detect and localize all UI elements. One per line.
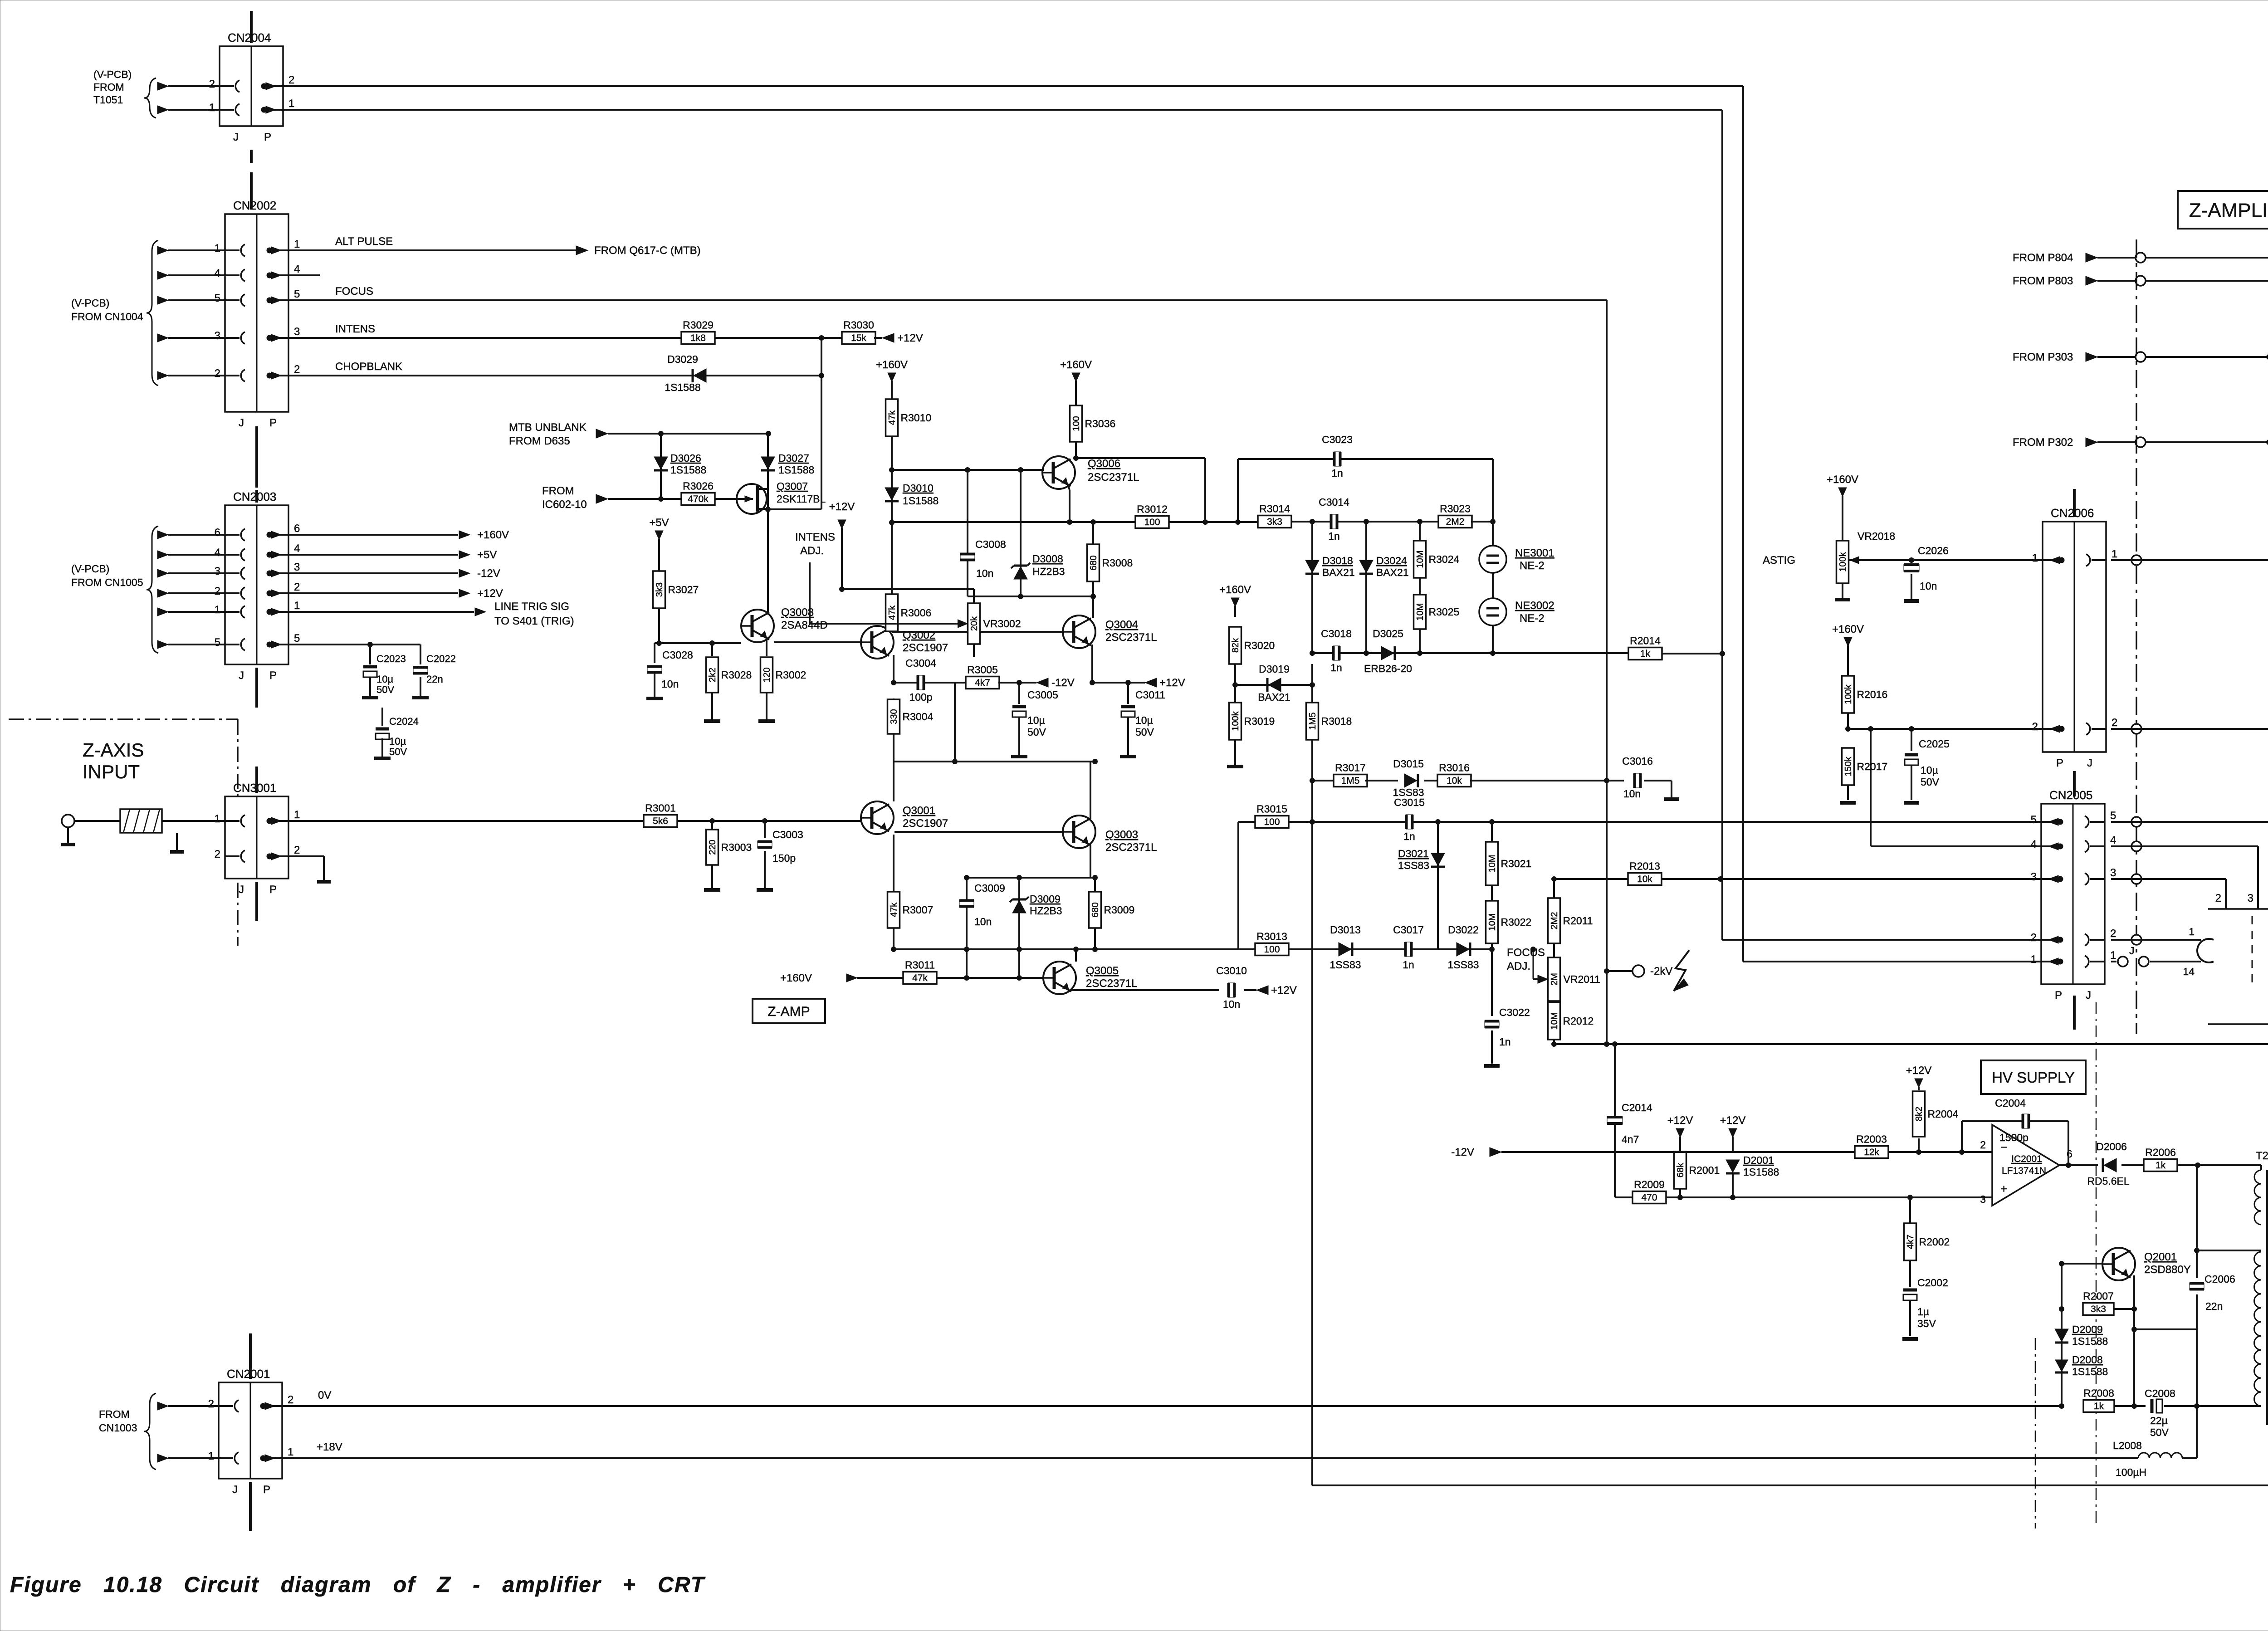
- svg-text:2SC1907: 2SC1907: [903, 817, 948, 830]
- svg-text:1: 1: [209, 102, 215, 114]
- svg-text:330: 330: [889, 709, 899, 724]
- svg-text:MTB UNBLANK: MTB UNBLANK: [509, 421, 587, 434]
- svg-text:C2014: C2014: [1622, 1102, 1652, 1113]
- svg-text:100µH: 100µH: [2116, 1466, 2146, 1478]
- svg-text:+12V: +12V: [1667, 1114, 1693, 1127]
- svg-text:R3014: R3014: [1259, 503, 1290, 515]
- svg-text:(V-PCB): (V-PCB): [71, 563, 109, 575]
- svg-text:10µ: 10µ: [389, 736, 406, 747]
- svg-text:R2002: R2002: [1919, 1236, 1950, 1248]
- svg-text:INTENS: INTENS: [335, 323, 375, 335]
- svg-text:2M2: 2M2: [1549, 912, 1559, 930]
- svg-text:1500p: 1500p: [1999, 1132, 2028, 1143]
- svg-text:D3009: D3009: [1030, 893, 1061, 905]
- svg-text:Z-AXIS: Z-AXIS: [83, 739, 144, 761]
- svg-text:1: 1: [288, 1446, 293, 1458]
- svg-text:3k3: 3k3: [655, 582, 665, 597]
- svg-text:R2008: R2008: [2083, 1387, 2114, 1399]
- svg-text:D3008: D3008: [1032, 553, 1063, 565]
- svg-text:+160V: +160V: [1219, 584, 1251, 596]
- svg-text:R3016: R3016: [1439, 762, 1470, 774]
- svg-text:1S1588: 1S1588: [1743, 1166, 1779, 1178]
- svg-text:5: 5: [215, 292, 220, 304]
- svg-text:4: 4: [294, 542, 300, 555]
- svg-text:P: P: [269, 884, 277, 896]
- svg-text:R2007: R2007: [2083, 1290, 2114, 1302]
- svg-text:D2009: D2009: [2072, 1323, 2103, 1335]
- svg-text:2: 2: [294, 581, 300, 593]
- svg-text:22n: 22n: [2205, 1300, 2223, 1312]
- svg-text:CN2004: CN2004: [228, 31, 271, 44]
- svg-text:D3013: D3013: [1330, 924, 1361, 936]
- svg-text:10k: 10k: [1447, 776, 1462, 786]
- svg-text:LF13741N: LF13741N: [2002, 1166, 2046, 1176]
- svg-text:R3029: R3029: [683, 319, 714, 331]
- svg-text:1M5: 1M5: [1341, 776, 1360, 786]
- svg-text:ASTIG: ASTIG: [1763, 554, 1795, 566]
- svg-text:1S1588: 1S1588: [2072, 1366, 2108, 1377]
- svg-text:4: 4: [2110, 834, 2116, 846]
- svg-text:-12V: -12V: [1451, 1146, 1474, 1158]
- svg-text:3: 3: [215, 565, 220, 577]
- svg-text:R3009: R3009: [1104, 904, 1135, 916]
- svg-text:R3024: R3024: [1429, 553, 1460, 565]
- svg-text:2SD880Y: 2SD880Y: [2144, 1264, 2191, 1276]
- svg-text:5: 5: [2031, 814, 2037, 826]
- svg-text:Q3006: Q3006: [1088, 458, 1120, 470]
- svg-text:R2017: R2017: [1857, 761, 1888, 772]
- svg-text:+12V: +12V: [829, 501, 855, 513]
- svg-text:2: 2: [2112, 717, 2117, 729]
- svg-text:FROM Q617-C (MTB): FROM Q617-C (MTB): [594, 244, 701, 257]
- svg-text:R2009: R2009: [1634, 1179, 1665, 1191]
- svg-text:50V: 50V: [1027, 726, 1046, 738]
- svg-text:1S1588: 1S1588: [2072, 1335, 2108, 1347]
- svg-text:1n: 1n: [1330, 662, 1342, 674]
- svg-text:2: 2: [288, 1394, 293, 1406]
- svg-text:R3002: R3002: [776, 669, 807, 681]
- svg-text:50V: 50V: [389, 746, 407, 757]
- svg-text:5: 5: [2110, 810, 2116, 822]
- svg-text:50V: 50V: [376, 684, 394, 695]
- svg-text:R2006: R2006: [2145, 1147, 2176, 1158]
- svg-text:C2023: C2023: [376, 653, 406, 664]
- svg-text:+5V: +5V: [649, 517, 669, 529]
- svg-text:Z-AMPLIFIER + CRT: Z-AMPLIFIER + CRT: [2189, 199, 2268, 221]
- svg-text:P: P: [263, 1484, 270, 1496]
- svg-text:C3028: C3028: [662, 649, 693, 661]
- svg-text:3: 3: [294, 561, 300, 573]
- svg-text:1n: 1n: [1403, 830, 1415, 842]
- svg-text:R3023: R3023: [1440, 503, 1471, 515]
- svg-text:2SC2371L: 2SC2371L: [1086, 977, 1137, 990]
- svg-text:1: 1: [2110, 949, 2116, 962]
- svg-text:47k: 47k: [887, 410, 897, 425]
- svg-text:+160V: +160V: [1060, 359, 1092, 371]
- svg-text:3: 3: [1980, 1193, 1986, 1205]
- svg-text:R3008: R3008: [1102, 557, 1133, 569]
- svg-text:R3004: R3004: [903, 711, 934, 723]
- svg-text:BAX21: BAX21: [1376, 566, 1409, 578]
- svg-text:2: 2: [1980, 1139, 1986, 1151]
- svg-text:2SC2371L: 2SC2371L: [1105, 841, 1157, 854]
- svg-text:100k: 100k: [1843, 684, 1853, 704]
- svg-text:R3025: R3025: [1429, 606, 1460, 618]
- svg-text:10µ: 10µ: [1027, 714, 1045, 726]
- svg-text:+12V: +12V: [1159, 677, 1185, 689]
- svg-text:CN1003: CN1003: [99, 1422, 137, 1434]
- svg-text:Z-AMP: Z-AMP: [767, 1004, 810, 1019]
- svg-text:D3018: D3018: [1322, 555, 1353, 566]
- svg-text:INPUT: INPUT: [83, 761, 140, 782]
- svg-text:3: 3: [2031, 871, 2037, 883]
- svg-text:1: 1: [2112, 548, 2117, 560]
- svg-text:2M2: 2M2: [1446, 517, 1465, 527]
- svg-text:Q3005: Q3005: [1086, 965, 1119, 977]
- svg-text:HV SUPPLY: HV SUPPLY: [1992, 1069, 2075, 1086]
- svg-text:1: 1: [294, 600, 300, 612]
- svg-text:47k: 47k: [912, 973, 928, 983]
- svg-text:C3010: C3010: [1216, 965, 1247, 977]
- svg-text:1: 1: [215, 604, 220, 616]
- svg-text:1: 1: [2032, 552, 2038, 564]
- svg-text:C3014: C3014: [1319, 496, 1349, 508]
- svg-text:R2016: R2016: [1857, 689, 1888, 700]
- svg-text:P: P: [2056, 757, 2063, 769]
- svg-text:P: P: [264, 131, 271, 143]
- svg-text:+160V: +160V: [780, 972, 812, 984]
- svg-text:10µ: 10µ: [1135, 714, 1153, 726]
- svg-text:R3026: R3026: [683, 480, 714, 492]
- svg-text:120: 120: [762, 667, 772, 682]
- svg-text:+18V: +18V: [317, 1441, 342, 1453]
- svg-text:68k: 68k: [1676, 1162, 1686, 1177]
- svg-text:INTENS: INTENS: [795, 531, 835, 543]
- svg-text:Q3003: Q3003: [1105, 829, 1138, 841]
- svg-text:C2002: C2002: [1917, 1277, 1948, 1289]
- svg-text:VR2011: VR2011: [1564, 973, 1600, 985]
- svg-text:P: P: [269, 417, 277, 429]
- svg-text:10n: 10n: [976, 567, 993, 579]
- svg-text:FROM: FROM: [99, 1408, 130, 1420]
- svg-text:2SC1907: 2SC1907: [903, 642, 948, 654]
- svg-text:1n: 1n: [1499, 1036, 1511, 1048]
- svg-text:100k: 100k: [1231, 711, 1241, 731]
- svg-text:1k: 1k: [1640, 649, 1651, 659]
- svg-text:D2008: D2008: [2072, 1354, 2103, 1366]
- svg-text:CHOPBLANK: CHOPBLANK: [335, 361, 402, 373]
- svg-text:C3004: C3004: [905, 657, 936, 669]
- svg-text:R2003: R2003: [1856, 1133, 1887, 1145]
- svg-text:(V-PCB): (V-PCB): [71, 297, 109, 309]
- svg-text:HZ2B3: HZ2B3: [1032, 566, 1065, 577]
- svg-text:FROM CN1004: FROM CN1004: [71, 311, 143, 322]
- svg-text:C2008: C2008: [2145, 1387, 2175, 1399]
- svg-text:50V: 50V: [1135, 726, 1154, 738]
- svg-text:10n: 10n: [974, 916, 992, 928]
- svg-text:D2006: D2006: [2096, 1141, 2127, 1152]
- svg-text:-12V: -12V: [477, 567, 500, 580]
- svg-text:+160V: +160V: [1827, 474, 1858, 486]
- svg-text:CN2003: CN2003: [233, 490, 276, 503]
- svg-text:4: 4: [294, 263, 300, 275]
- svg-text:R3019: R3019: [1244, 715, 1275, 727]
- svg-text:100: 100: [1264, 944, 1280, 955]
- svg-text:100p: 100p: [909, 691, 932, 703]
- svg-text:R3028: R3028: [721, 669, 752, 681]
- svg-text:D3025: D3025: [1373, 628, 1403, 640]
- svg-text:100k: 100k: [1838, 552, 1848, 571]
- svg-text:10µ: 10µ: [376, 674, 393, 685]
- svg-text:Q2001: Q2001: [2144, 1251, 2177, 1263]
- svg-text:1n: 1n: [1403, 959, 1414, 971]
- svg-text:Q3004: Q3004: [1105, 619, 1138, 631]
- svg-text:T1051: T1051: [93, 94, 123, 106]
- svg-text:RD5.6EL: RD5.6EL: [2087, 1175, 2130, 1187]
- svg-text:BAX21: BAX21: [1322, 566, 1355, 578]
- svg-text:D3026: D3026: [670, 452, 701, 464]
- svg-text:D3019: D3019: [1259, 663, 1290, 675]
- svg-text:10M: 10M: [1487, 913, 1497, 931]
- svg-text:R3005: R3005: [967, 664, 998, 676]
- svg-text:J: J: [2086, 989, 2091, 1001]
- svg-text:P: P: [2055, 989, 2062, 1001]
- svg-text:CN2006: CN2006: [2051, 506, 2094, 520]
- svg-text:5: 5: [294, 288, 300, 300]
- svg-text:4: 4: [2031, 838, 2037, 850]
- svg-text:C2006: C2006: [2204, 1273, 2235, 1285]
- svg-text:FROM P803: FROM P803: [2013, 275, 2073, 287]
- svg-text:+12V: +12V: [1906, 1065, 1932, 1077]
- svg-text:CN2001: CN2001: [227, 1367, 270, 1381]
- svg-text:C2022: C2022: [426, 653, 456, 664]
- svg-text:NE3001: NE3001: [1515, 547, 1554, 559]
- svg-text:(V-PCB): (V-PCB): [93, 68, 132, 80]
- svg-text:D3015: D3015: [1393, 758, 1424, 770]
- svg-text:100: 100: [1071, 416, 1081, 431]
- svg-text:12k: 12k: [1864, 1147, 1879, 1157]
- svg-text:2SC2371L: 2SC2371L: [1088, 471, 1139, 483]
- svg-text:J: J: [2087, 757, 2092, 769]
- svg-text:4: 4: [215, 547, 220, 559]
- svg-text:1S1588: 1S1588: [778, 464, 814, 476]
- svg-text:1n: 1n: [1331, 467, 1343, 479]
- svg-text:35V: 35V: [1917, 1318, 1936, 1329]
- svg-text:R3011: R3011: [905, 959, 935, 971]
- svg-text:5k6: 5k6: [653, 816, 668, 826]
- svg-text:2M: 2M: [1549, 973, 1559, 986]
- svg-text:10n: 10n: [1223, 998, 1240, 1010]
- svg-text:1: 1: [288, 98, 294, 110]
- svg-text:1S1588: 1S1588: [903, 495, 938, 507]
- svg-text:J: J: [239, 417, 244, 429]
- svg-text:10n: 10n: [1623, 788, 1641, 800]
- svg-text:680: 680: [1089, 555, 1099, 570]
- svg-text:150p: 150p: [772, 852, 796, 864]
- svg-text:D3029: D3029: [667, 353, 698, 365]
- svg-text:C2025: C2025: [1919, 738, 1950, 750]
- svg-text:100: 100: [1144, 517, 1160, 527]
- svg-text:C3022: C3022: [1499, 1006, 1530, 1018]
- svg-text:6: 6: [294, 523, 300, 535]
- svg-text:10k: 10k: [1637, 874, 1652, 884]
- svg-text:C3009: C3009: [974, 882, 1005, 894]
- svg-text:J: J: [2129, 945, 2135, 957]
- svg-text:NE3002: NE3002: [1515, 600, 1554, 612]
- svg-text:22n: 22n: [426, 674, 443, 685]
- svg-text:+12V: +12V: [1271, 984, 1297, 996]
- svg-text:1S1588: 1S1588: [665, 381, 700, 393]
- svg-text:ADJ.: ADJ.: [800, 545, 824, 557]
- svg-text:C3017: C3017: [1393, 924, 1424, 936]
- svg-text:R2001: R2001: [1689, 1164, 1720, 1176]
- svg-text:1: 1: [208, 1450, 214, 1462]
- svg-text:R3036: R3036: [1085, 418, 1116, 430]
- svg-text:C2004: C2004: [1995, 1097, 2026, 1109]
- svg-text:1: 1: [2189, 926, 2195, 938]
- svg-text:4k7: 4k7: [975, 678, 990, 688]
- svg-text:50V: 50V: [2150, 1426, 2169, 1438]
- svg-text:2: 2: [209, 78, 215, 90]
- svg-text:2SC2371L: 2SC2371L: [1105, 631, 1157, 644]
- svg-text:20k: 20k: [969, 616, 979, 631]
- svg-text:3k3: 3k3: [1267, 517, 1282, 527]
- svg-text:2: 2: [215, 367, 220, 380]
- svg-text:FROM: FROM: [542, 485, 574, 497]
- svg-text:10M: 10M: [1487, 855, 1497, 873]
- svg-text:50V: 50V: [1921, 776, 1940, 788]
- svg-text:IC2001: IC2001: [2011, 1154, 2042, 1164]
- svg-text:150k: 150k: [1843, 756, 1853, 776]
- svg-text:1: 1: [215, 813, 220, 825]
- svg-text:2k2: 2k2: [708, 668, 718, 682]
- svg-text:FROM CN1005: FROM CN1005: [71, 576, 143, 588]
- svg-text:+160V: +160V: [876, 359, 908, 371]
- svg-text:-2kV: -2kV: [1650, 965, 1672, 977]
- svg-text:J: J: [239, 669, 244, 682]
- svg-text:Figure 10.18 Circuit diagram o: Figure 10.18 Circuit diagram of Z - ampl…: [10, 1573, 706, 1597]
- svg-text:R3001: R3001: [645, 802, 676, 814]
- svg-text:10n: 10n: [1920, 580, 1937, 592]
- svg-text:+: +: [2000, 1182, 2007, 1196]
- svg-text:15k: 15k: [851, 333, 866, 343]
- svg-text:Q3007: Q3007: [777, 480, 808, 492]
- svg-text:10µ: 10µ: [1921, 764, 1938, 776]
- svg-text:4n7: 4n7: [1622, 1133, 1639, 1145]
- svg-text:10M: 10M: [1549, 1012, 1559, 1030]
- svg-text:2: 2: [215, 585, 220, 597]
- svg-text:T2001: T2001: [2256, 1150, 2268, 1162]
- svg-text:2: 2: [2032, 721, 2038, 733]
- svg-text:ERB26-20: ERB26-20: [1364, 663, 1412, 674]
- svg-text:D3024: D3024: [1376, 555, 1407, 566]
- svg-text:R2011: R2011: [1563, 915, 1593, 927]
- svg-text:8k2: 8k2: [1914, 1107, 1924, 1121]
- svg-text:2: 2: [2031, 932, 2037, 944]
- svg-text:D3021: D3021: [1398, 848, 1429, 859]
- svg-text:R3006: R3006: [901, 607, 932, 619]
- svg-text:R3010: R3010: [901, 412, 932, 424]
- svg-text:6: 6: [2067, 1148, 2072, 1160]
- svg-text:C3015: C3015: [1394, 796, 1425, 808]
- svg-text:4k7: 4k7: [1906, 1235, 1916, 1249]
- svg-text:10n: 10n: [661, 678, 679, 690]
- svg-text:5: 5: [294, 632, 300, 645]
- svg-text:2: 2: [294, 363, 300, 376]
- svg-text:220: 220: [708, 840, 718, 855]
- svg-text:1SS83: 1SS83: [1398, 859, 1429, 871]
- svg-text:1k8: 1k8: [690, 333, 706, 343]
- svg-text:FROM P804: FROM P804: [2013, 252, 2073, 264]
- svg-text:22µ: 22µ: [2150, 1415, 2168, 1426]
- svg-text:IC602-10: IC602-10: [542, 498, 587, 511]
- svg-text:C3005: C3005: [1027, 689, 1058, 701]
- svg-text:+12V: +12V: [477, 587, 503, 600]
- svg-text:HZ2B3: HZ2B3: [1030, 905, 1062, 917]
- svg-text:+160V: +160V: [1832, 623, 1864, 635]
- svg-text:R3003: R3003: [721, 841, 752, 853]
- svg-text:2: 2: [208, 1398, 214, 1410]
- svg-text:2SK117BL: 2SK117BL: [777, 493, 826, 505]
- svg-text:1k: 1k: [2094, 1401, 2104, 1411]
- svg-text:R2004: R2004: [1928, 1108, 1959, 1120]
- svg-text:FOCUS: FOCUS: [335, 285, 373, 298]
- svg-text:CN2005: CN2005: [2049, 788, 2092, 802]
- svg-text:R3022: R3022: [1501, 916, 1532, 928]
- svg-text:+5V: +5V: [477, 549, 497, 561]
- svg-text:VR3002: VR3002: [983, 618, 1021, 630]
- svg-text:1: 1: [294, 809, 300, 821]
- svg-text:C3008: C3008: [975, 538, 1006, 550]
- svg-text:VR2018: VR2018: [1857, 530, 1895, 542]
- svg-text:FROM: FROM: [93, 81, 124, 93]
- svg-text:D2001: D2001: [1743, 1154, 1774, 1166]
- svg-text:-12V: -12V: [1051, 677, 1075, 689]
- svg-text:82k: 82k: [1231, 638, 1241, 653]
- svg-text:C3023: C3023: [1322, 434, 1353, 445]
- svg-text:680: 680: [1090, 902, 1100, 917]
- svg-text:4: 4: [215, 267, 220, 279]
- svg-text:3: 3: [2248, 892, 2253, 904]
- svg-text:2: 2: [215, 848, 220, 860]
- svg-text:FROM P302: FROM P302: [2013, 436, 2073, 449]
- svg-text:14: 14: [2183, 966, 2195, 977]
- svg-text:NE-2: NE-2: [1520, 612, 1545, 625]
- svg-text:L2008: L2008: [2113, 1440, 2142, 1451]
- svg-text:3k3: 3k3: [2091, 1304, 2106, 1314]
- svg-text:P: P: [269, 669, 277, 682]
- svg-text:10M: 10M: [1415, 603, 1425, 621]
- svg-text:1: 1: [215, 242, 220, 254]
- svg-text:R3018: R3018: [1321, 715, 1352, 727]
- svg-text:6: 6: [215, 527, 220, 539]
- svg-text:C2026: C2026: [1918, 545, 1949, 557]
- svg-text:R3015: R3015: [1256, 803, 1287, 815]
- svg-text:470k: 470k: [688, 494, 709, 504]
- svg-text:10M: 10M: [1415, 551, 1425, 568]
- svg-text:FOCUS: FOCUS: [1507, 947, 1545, 959]
- svg-text:R3020: R3020: [1244, 640, 1275, 651]
- svg-text:100: 100: [1264, 817, 1280, 827]
- svg-text:NE-2: NE-2: [1520, 560, 1545, 572]
- svg-text:1: 1: [294, 238, 300, 250]
- svg-text:2: 2: [294, 844, 300, 856]
- svg-text:+160V: +160V: [477, 529, 509, 541]
- svg-text:1µ: 1µ: [1917, 1306, 1929, 1318]
- svg-text:0V: 0V: [318, 1389, 331, 1401]
- svg-text:J: J: [239, 884, 244, 896]
- svg-text:C3016: C3016: [1622, 755, 1653, 767]
